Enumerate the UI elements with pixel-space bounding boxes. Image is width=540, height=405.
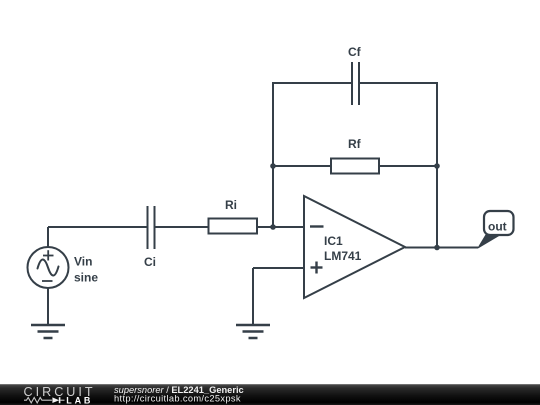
svg-text:Vin: Vin bbox=[74, 255, 92, 269]
svg-text:Ri: Ri bbox=[225, 198, 237, 212]
svg-text:Ci: Ci bbox=[144, 255, 156, 269]
svg-text:http://circuitlab.com/c25xpsk: http://circuitlab.com/c25xpsk bbox=[114, 394, 241, 404]
svg-text:out: out bbox=[488, 220, 507, 234]
svg-text:Cf: Cf bbox=[348, 45, 362, 59]
svg-text:LAB: LAB bbox=[66, 395, 93, 405]
svg-text:sine: sine bbox=[74, 271, 98, 285]
svg-text:LM741: LM741 bbox=[324, 249, 362, 263]
svg-text:Rf: Rf bbox=[348, 137, 362, 151]
svg-text:IC1: IC1 bbox=[324, 234, 343, 248]
